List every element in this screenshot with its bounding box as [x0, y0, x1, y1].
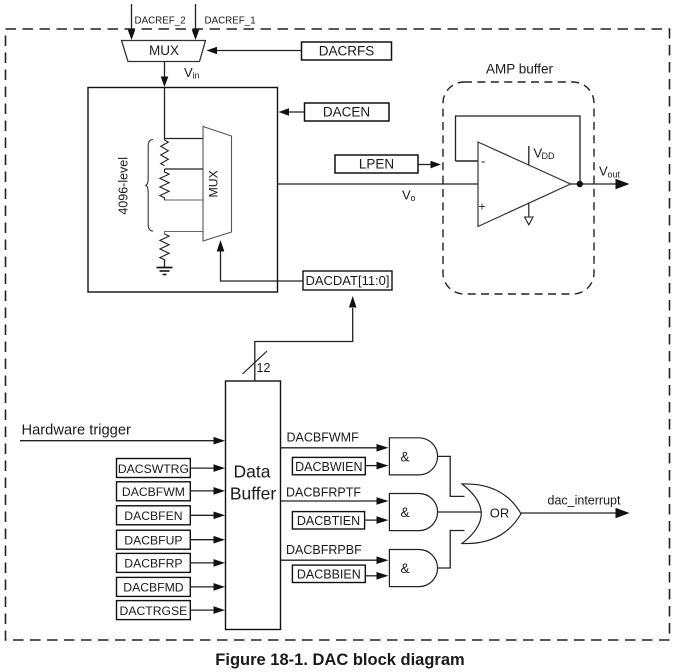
- svg-text:DACDAT[11:0]: DACDAT[11:0]: [305, 273, 389, 288]
- junction output node: [577, 181, 583, 187]
- svg-text:Buffer: Buffer: [230, 484, 277, 504]
- wire Vo: [278, 183, 479, 185]
- wire DACBFWMF to AND1: [281, 444, 389, 452]
- register box DACSWTRG: [117, 459, 191, 478]
- Data Buffer box: [226, 381, 281, 630]
- register box DACBBIEN: [292, 565, 365, 582]
- wire Data Buffer to DACDAT: [255, 296, 357, 381]
- wire tap 1: [165, 138, 204, 140]
- wire DACBFWM to buffer: [190, 487, 225, 495]
- svg-text:DACBFRPTF: DACBFRPTF: [286, 485, 361, 499]
- svg-text:DACREF_2: DACREF_2: [135, 16, 186, 27]
- register box DACTRGSE: [117, 601, 191, 620]
- wire Vin: [161, 62, 169, 88]
- register box DACBFMD: [117, 577, 191, 596]
- svg-text:DD: DD: [542, 151, 555, 161]
- wire DACBFUP to buffer: [190, 536, 225, 544]
- wire hardware trigger: [20, 437, 225, 445]
- DAC core box: [88, 88, 278, 293]
- svg-text:4096-level: 4096-level: [116, 157, 130, 215]
- label Vout: [599, 164, 621, 180]
- svg-text:12: 12: [257, 361, 271, 375]
- register box DACBFEN: [117, 506, 191, 525]
- wire DACREF_2: [128, 4, 136, 40]
- wire DACRFS to MUX: [207, 47, 302, 55]
- wire tap 2: [165, 168, 204, 170]
- svg-text:DACSWTRG: DACSWTRG: [118, 462, 189, 476]
- svg-text:&: &: [400, 449, 409, 464]
- wire LPEN to AMP buffer: [418, 161, 441, 169]
- svg-text:DACBFRPBF: DACBFRPBF: [286, 543, 362, 557]
- label Vo: [402, 188, 416, 204]
- AND gate 1: [389, 438, 437, 475]
- svg-text:DACRFS: DACRFS: [319, 43, 375, 58]
- wire AND1 to OR: [438, 456, 465, 496]
- register box DACBTIEN: [292, 512, 364, 529]
- svg-text:DACBFWMF: DACBFWMF: [287, 431, 360, 445]
- wire DACREF_1: [192, 4, 200, 40]
- register box DACDAT[11:0]: [303, 271, 392, 290]
- svg-text:&: &: [400, 561, 409, 576]
- svg-text:in: in: [193, 71, 200, 81]
- register box DACBFRP: [117, 553, 191, 572]
- svg-text:Hardware trigger: Hardware trigger: [22, 423, 131, 439]
- svg-text:DACEN: DACEN: [323, 104, 370, 119]
- wire Vout: [571, 179, 630, 189]
- wire inverting input: [456, 160, 479, 162]
- wire DACEN to DAC core: [279, 108, 305, 116]
- svg-text:Data: Data: [234, 462, 271, 482]
- wire DACBFEN to buffer: [190, 512, 225, 520]
- wire DACBFRPBF to AND3: [281, 556, 389, 564]
- mux U1 reference mux: [122, 41, 206, 62]
- wire tap 3: [165, 199, 204, 201]
- svg-text:DACREF_1: DACREF_1: [205, 16, 256, 27]
- label VDD: [534, 146, 555, 162]
- OR gate: [462, 484, 521, 544]
- bus width slash: [243, 351, 268, 374]
- AND gate 3: [389, 550, 437, 587]
- svg-text:MUX: MUX: [206, 170, 220, 197]
- svg-text:DACBFEN: DACBFEN: [124, 509, 182, 523]
- svg-text:+: +: [479, 200, 486, 214]
- svg-text:o: o: [411, 193, 416, 203]
- svg-text:dac_interrupt: dac_interrupt: [548, 493, 621, 507]
- svg-text:DACBFMD: DACBFMD: [123, 581, 183, 595]
- register box DACRFS: [302, 42, 392, 60]
- wire DACSWTRG to buffer: [190, 464, 225, 472]
- wire tap 4: [165, 232, 204, 235]
- svg-text:Figure 18-1. DAC block diagram: Figure 18-1. DAC block diagram: [215, 651, 464, 669]
- wire VDD: [528, 146, 530, 166]
- resistor R3: [160, 234, 169, 262]
- wire ladder input: [164, 88, 166, 141]
- AMP buffer dashed box: [443, 82, 594, 294]
- register box DACEN: [305, 103, 390, 121]
- svg-text:DACBFRP: DACBFRP: [124, 557, 182, 571]
- wire DACBFRPTF to AND2: [281, 497, 389, 505]
- svg-text:DACBWIEN: DACBWIEN: [295, 460, 362, 474]
- wire feedback: [456, 116, 581, 184]
- wire op-amp ground: [528, 204, 530, 218]
- wire DACBWIEN to AND1: [365, 462, 388, 470]
- register box DACBFUP: [117, 530, 191, 549]
- AND gate 2: [389, 494, 437, 531]
- svg-text:AMP buffer: AMP buffer: [486, 62, 554, 77]
- op-amp ground symbol: [525, 217, 533, 225]
- resistor R2: [160, 169, 169, 200]
- svg-text:LPEN: LPEN: [359, 156, 394, 171]
- svg-text:&: &: [400, 505, 409, 520]
- register box DACBWIEN: [292, 457, 365, 474]
- wire DACDAT to mux select: [217, 240, 303, 281]
- svg-text:MUX: MUX: [149, 43, 179, 58]
- label Vin: [184, 65, 200, 81]
- wire DACTRGSE to buffer: [190, 606, 225, 614]
- svg-text:DACBFUP: DACBFUP: [124, 534, 182, 548]
- svg-text:out: out: [608, 170, 621, 180]
- register box DACBFWM: [117, 482, 191, 501]
- svg-text:-: -: [481, 154, 485, 169]
- ground: [157, 268, 173, 275]
- register box LPEN: [335, 155, 418, 173]
- wire AND2 to OR: [438, 511, 481, 513]
- svg-text:DACTRGSE: DACTRGSE: [120, 604, 188, 618]
- svg-text:DACBTIEN: DACBTIEN: [297, 514, 360, 528]
- svg-text:OR: OR: [490, 506, 510, 521]
- wire DACBFRP to buffer: [190, 559, 225, 567]
- brace 4096-level: [145, 140, 153, 232]
- mux U2 level mux: [203, 127, 232, 242]
- wire AND3 to OR: [438, 531, 465, 569]
- wire dac_interrupt: [521, 508, 630, 518]
- svg-text:DACBBIEN: DACBBIEN: [297, 568, 361, 582]
- wire DACBTIEN to AND2: [365, 516, 389, 524]
- wire DACBFMD to buffer: [190, 583, 225, 591]
- resistor R1: [161, 140, 169, 166]
- op-amp U3: [478, 142, 571, 227]
- wire DACBBIEN to AND3: [365, 572, 388, 580]
- wire to ground: [164, 260, 166, 268]
- svg-text:DACBFWM: DACBFWM: [122, 485, 185, 499]
